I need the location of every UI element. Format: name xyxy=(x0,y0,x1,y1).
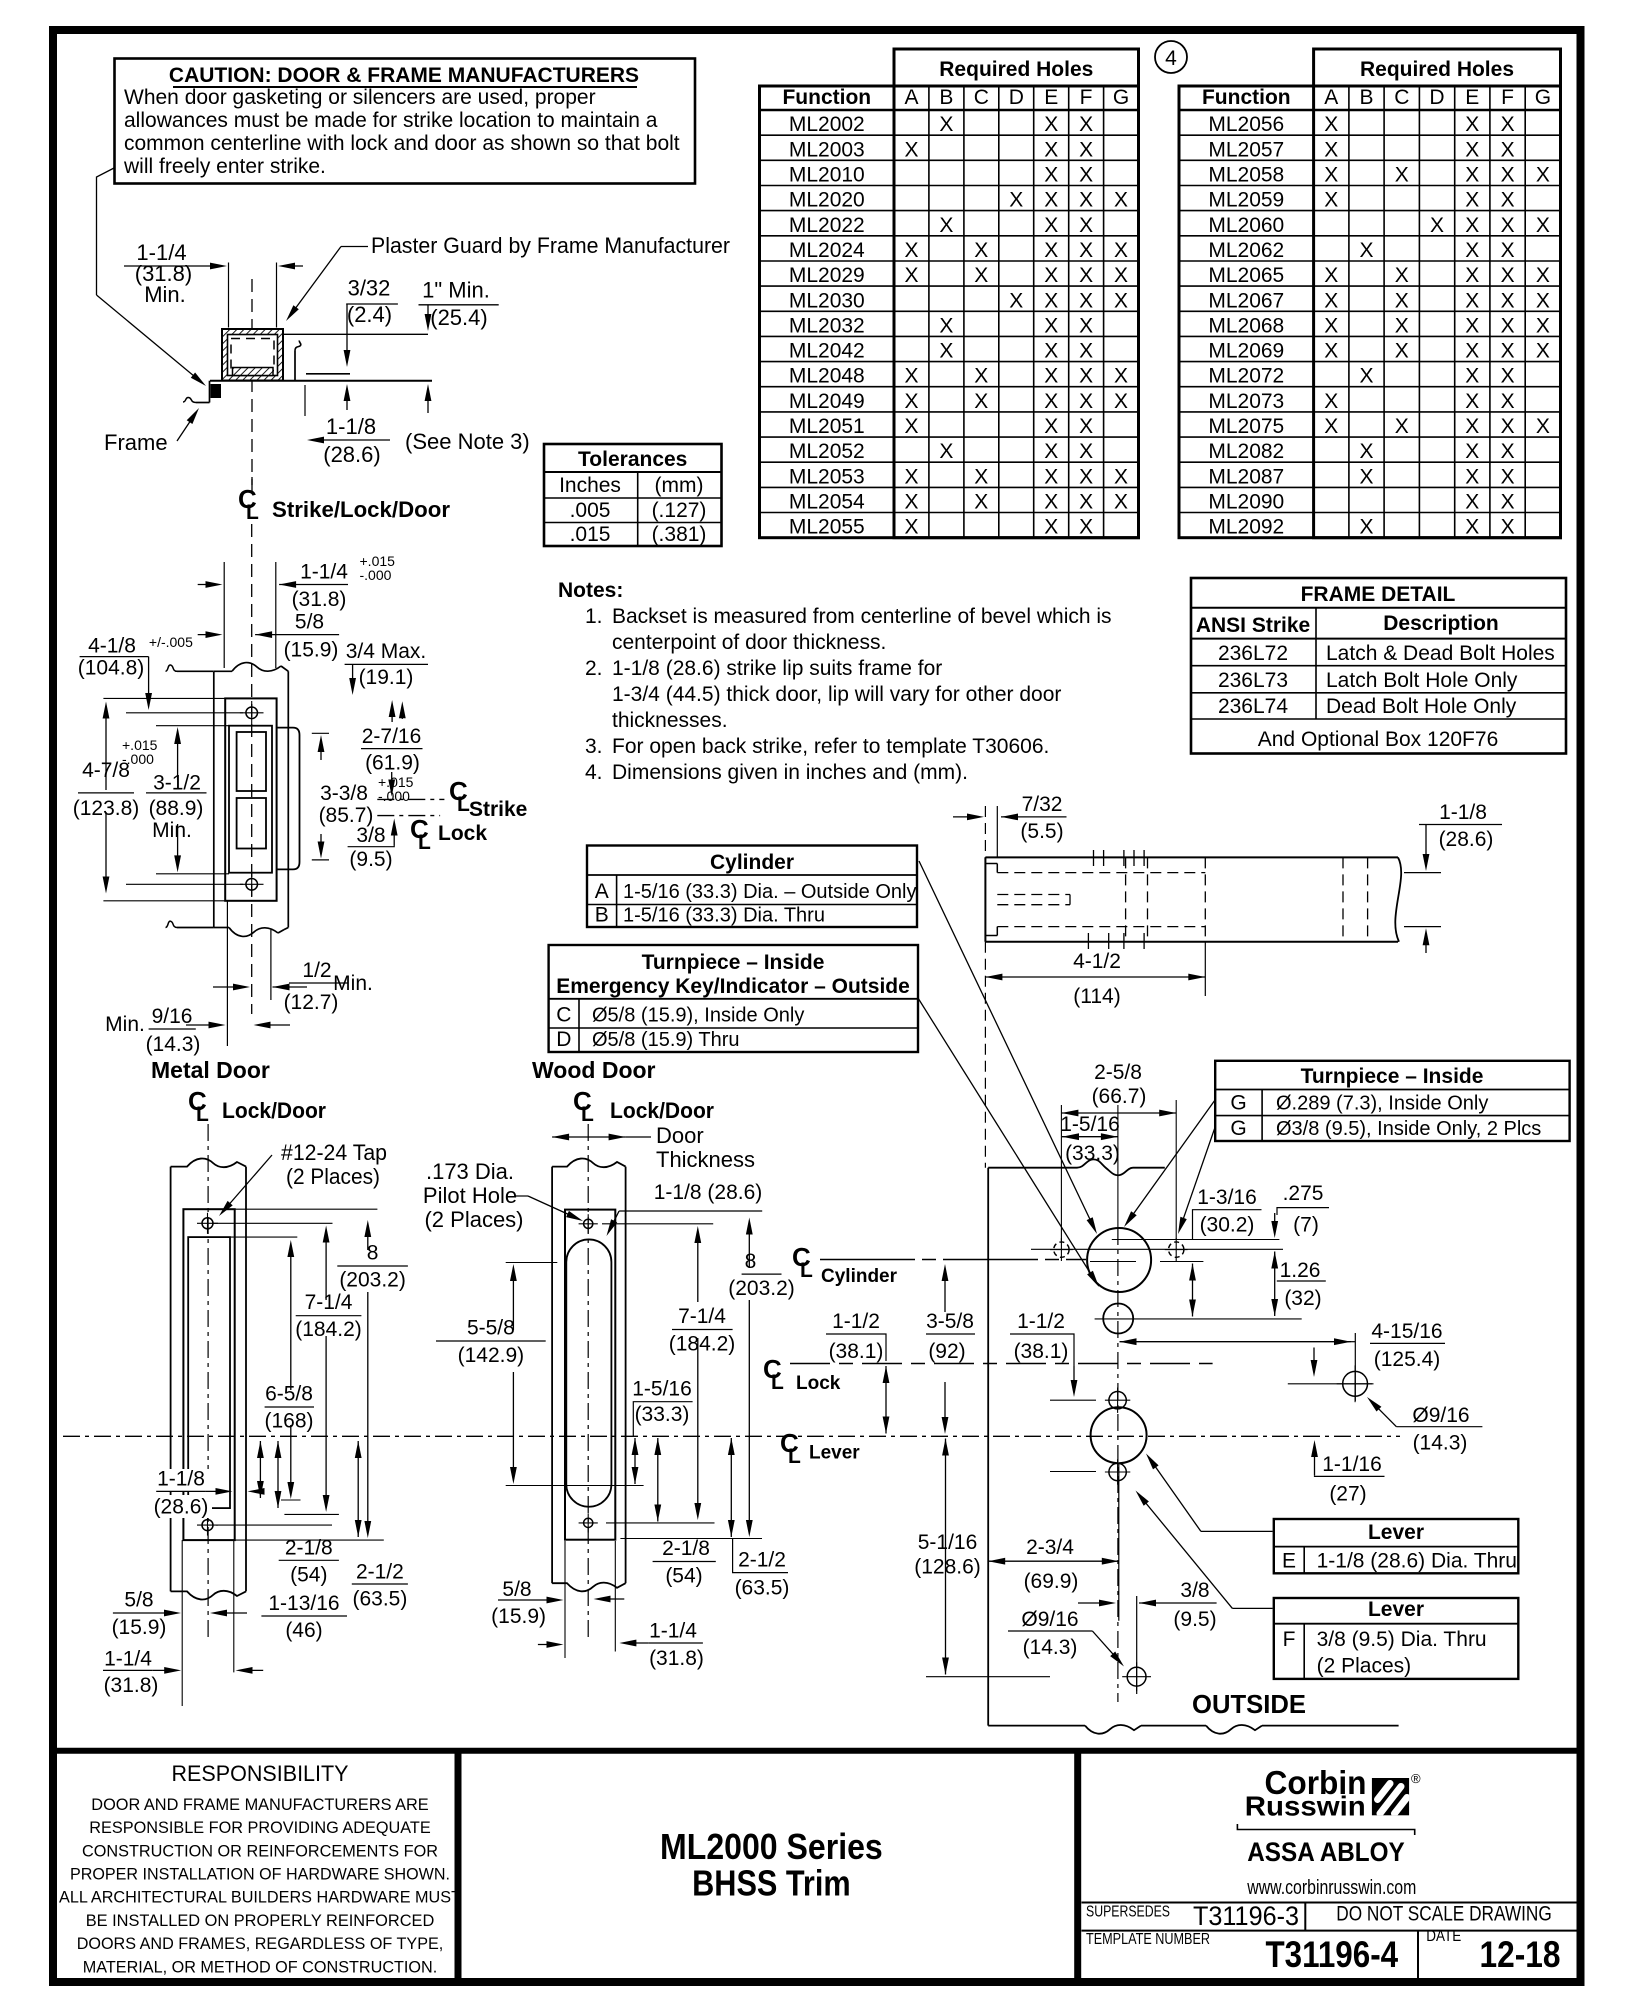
svg-text:X: X xyxy=(1079,264,1093,287)
tolerances table xyxy=(544,444,722,546)
svg-text:ML2075: ML2075 xyxy=(1208,415,1284,438)
svg-text:Backset is measured from cente: Backset is measured from centerline of b… xyxy=(612,605,1112,628)
svg-text:(92): (92) xyxy=(928,1340,965,1363)
svg-text:A: A xyxy=(595,880,609,903)
svg-text:1-5/16 (33.3) Dia. Thru: 1-5/16 (33.3) Dia. Thru xyxy=(623,905,825,927)
svg-text:E: E xyxy=(1044,86,1058,109)
svg-text:X: X xyxy=(1465,113,1479,136)
svg-text:2-7/16: 2-7/16 xyxy=(362,725,422,748)
svg-text:X: X xyxy=(904,491,918,514)
svg-text:.005: .005 xyxy=(570,499,611,522)
svg-text:(2 Places): (2 Places) xyxy=(424,1207,523,1232)
dim 5/8 xyxy=(198,634,217,636)
metal door lower extensions xyxy=(181,1540,183,1706)
svg-text:3.: 3. xyxy=(585,735,603,758)
svg-text:X: X xyxy=(1044,164,1058,187)
dim 7/32 xyxy=(953,816,978,818)
svg-text:FRAME DETAIL: FRAME DETAIL xyxy=(1301,583,1456,606)
strike cutout xyxy=(229,726,272,873)
svg-text:X: X xyxy=(1079,239,1093,262)
global CL lever line xyxy=(63,1435,1400,1437)
svg-text:thicknesses.: thicknesses. xyxy=(612,709,728,732)
svg-text:DO NOT SCALE DRAWING: DO NOT SCALE DRAWING xyxy=(1336,1903,1552,1926)
lever lower extension xyxy=(1118,1464,1120,1621)
right 9/16 hole xyxy=(1288,1383,1372,1385)
svg-text:CONSTRUCTION OR REINFORCEMENTS: CONSTRUCTION OR REINFORCEMENTS FOR xyxy=(82,1841,438,1860)
svg-text:1-1/16: 1-1/16 xyxy=(1322,1453,1382,1476)
svg-text:1-13/16: 1-13/16 xyxy=(268,1592,339,1615)
svg-text:X: X xyxy=(1465,264,1479,287)
dim 6-5/8 metal xyxy=(290,1246,292,1390)
svg-text:X: X xyxy=(1044,314,1058,337)
svg-text:5/8: 5/8 xyxy=(124,1589,153,1612)
svg-text:X: X xyxy=(1501,138,1515,161)
line B centers xyxy=(1031,1248,1283,1250)
svg-text:For open back strike, refer to: For open back strike, refer to template … xyxy=(612,735,1049,758)
svg-text:(2 Places): (2 Places) xyxy=(1317,1654,1412,1677)
CL strike lock door label xyxy=(251,477,253,489)
metal door face plate xyxy=(183,1209,234,1540)
svg-text:(31.8): (31.8) xyxy=(104,1674,159,1697)
svg-text:Lock: Lock xyxy=(438,822,487,845)
svg-text:Strike/Lock/Door: Strike/Lock/Door xyxy=(272,497,450,522)
svg-text:X: X xyxy=(1044,239,1058,262)
svg-text:1" Min.: 1" Min. xyxy=(422,278,490,303)
svg-text:D: D xyxy=(1009,86,1024,109)
svg-text:7-1/4: 7-1/4 xyxy=(305,1291,353,1314)
strike plate outline xyxy=(225,698,276,900)
svg-text:X: X xyxy=(1044,138,1058,161)
svg-text:Metal Door: Metal Door xyxy=(151,1057,270,1083)
svg-text:1-3/16: 1-3/16 xyxy=(1197,1186,1257,1209)
svg-text:Function: Function xyxy=(782,86,871,109)
svg-text:5/8: 5/8 xyxy=(502,1578,531,1601)
svg-text:ML2010: ML2010 xyxy=(789,164,865,187)
svg-text:X: X xyxy=(904,138,918,161)
dim 2-3/4 xyxy=(988,1560,1119,1562)
svg-text:E: E xyxy=(1465,86,1479,109)
wood door face plate xyxy=(565,1210,615,1540)
dim 7-1/4 metal xyxy=(325,1232,327,1301)
strike drawing centerline xyxy=(251,524,253,1014)
svg-text:X: X xyxy=(1501,189,1515,212)
svg-text:When door gasketing or silence: When door gasketing or silencers are use… xyxy=(124,86,596,109)
svg-text:TEMPLATE NUMBER: TEMPLATE NUMBER xyxy=(1086,1931,1210,1948)
small double arrow xyxy=(1192,1264,1194,1317)
svg-text:ML2087: ML2087 xyxy=(1208,465,1284,488)
svg-text:X: X xyxy=(904,365,918,388)
svg-text:(14.3): (14.3) xyxy=(1023,1636,1078,1659)
svg-text:(123.8): (123.8) xyxy=(73,797,140,820)
svg-text:Lever: Lever xyxy=(1368,1521,1424,1544)
svg-text:Cylinder: Cylinder xyxy=(821,1266,898,1287)
svg-text:ML2065: ML2065 xyxy=(1208,264,1284,287)
svg-text:X: X xyxy=(1044,440,1058,463)
svg-text:4-1/2: 4-1/2 xyxy=(1073,950,1121,973)
svg-text:X: X xyxy=(1465,390,1479,413)
svg-text:X: X xyxy=(1359,465,1373,488)
svg-text:Description: Description xyxy=(1383,612,1499,635)
svg-text:(12.7): (12.7) xyxy=(284,991,339,1014)
svg-text:Lock: Lock xyxy=(796,1373,841,1394)
svg-text:Function: Function xyxy=(1202,86,1291,109)
svg-text:(69.9): (69.9) xyxy=(1024,1570,1079,1593)
svg-text:X: X xyxy=(1114,365,1128,388)
svg-text:X: X xyxy=(1079,289,1093,312)
svg-text:ML2003: ML2003 xyxy=(789,138,865,161)
dim 2-1/8 metal xyxy=(277,1441,279,1508)
svg-text:2-5/8: 2-5/8 xyxy=(1094,1061,1142,1084)
dim 1-1/8 bar xyxy=(1404,872,1441,874)
svg-text:F: F xyxy=(1080,86,1093,109)
svg-text:X: X xyxy=(1079,390,1093,413)
svg-text:ML2030: ML2030 xyxy=(789,289,865,312)
svg-text:X: X xyxy=(904,465,918,488)
svg-text:G: G xyxy=(1113,86,1129,109)
svg-text:X: X xyxy=(1501,340,1515,363)
svg-text:X: X xyxy=(1465,314,1479,337)
svg-text:(19.1): (19.1) xyxy=(359,666,414,689)
svg-text:1-1/8 (28.6) Dia. Thru: 1-1/8 (28.6) Dia. Thru xyxy=(1317,1550,1517,1573)
svg-text:X: X xyxy=(1395,314,1409,337)
wood door pilot holes xyxy=(584,1219,593,1228)
svg-text:2-1/2: 2-1/2 xyxy=(738,1549,786,1572)
svg-text:Cylinder: Cylinder xyxy=(710,851,794,874)
bar hidden mortise lines xyxy=(997,872,1205,874)
svg-text:ML2082: ML2082 xyxy=(1208,440,1284,463)
svg-text:1-1/8: 1-1/8 xyxy=(157,1468,205,1491)
svg-text:(28.6): (28.6) xyxy=(154,1495,209,1518)
svg-text:(203.2): (203.2) xyxy=(728,1277,795,1300)
svg-text:X: X xyxy=(939,440,953,463)
deadbolt hole xyxy=(237,798,266,849)
svg-text:Emergency Key/Indicator – Outs: Emergency Key/Indicator – Outside xyxy=(556,975,910,998)
leader from caution box xyxy=(97,168,116,296)
leader G table row1 xyxy=(1128,1100,1216,1222)
svg-text:Door: Door xyxy=(656,1123,704,1148)
svg-text:X: X xyxy=(1114,239,1128,262)
metal door edge strip xyxy=(170,1167,172,1592)
svg-text:(15.9): (15.9) xyxy=(284,639,339,662)
metal door screw holes xyxy=(202,1218,213,1229)
svg-text:(25.4): (25.4) xyxy=(430,305,487,330)
svg-text:L: L xyxy=(581,1103,594,1126)
svg-text:Ø5/8 (15.9) Thru: Ø5/8 (15.9) Thru xyxy=(592,1029,739,1051)
dim 7-1/4 wood xyxy=(697,1232,699,1302)
svg-text:X: X xyxy=(1324,340,1338,363)
dim 2-1/2 wood xyxy=(730,1438,732,1537)
svg-text:X: X xyxy=(904,264,918,287)
svg-text:ALL ARCHITECTURAL BUILDERS HAR: ALL ARCHITECTURAL BUILDERS HARDWARE MUST xyxy=(59,1888,461,1907)
strike box section strip xyxy=(233,368,274,376)
svg-text:236L74: 236L74 xyxy=(1218,695,1288,718)
svg-text:X: X xyxy=(904,516,918,539)
bar alignment dashed line xyxy=(984,806,986,857)
svg-text:4-1/8: 4-1/8 xyxy=(88,634,136,657)
svg-text:236L73: 236L73 xyxy=(1218,669,1288,692)
svg-text:X: X xyxy=(1044,189,1058,212)
svg-text:Min.: Min. xyxy=(144,282,186,307)
dim 1.26 xyxy=(1274,1252,1276,1317)
svg-text:X: X xyxy=(1079,113,1093,136)
dim 2-1/2 metal xyxy=(357,1441,359,1537)
svg-text:allowances must be made for st: allowances must be made for strike locat… xyxy=(124,109,658,132)
svg-text:will freely enter strike.: will freely enter strike. xyxy=(123,155,326,178)
svg-text:X: X xyxy=(1501,516,1515,539)
svg-text:2.: 2. xyxy=(585,657,603,680)
svg-text:X: X xyxy=(1465,239,1479,262)
svg-text:ML2000 Series: ML2000 Series xyxy=(660,1826,883,1867)
svg-text:(28.6): (28.6) xyxy=(1439,828,1494,851)
dim 1-5/16 trim xyxy=(1062,1136,1118,1138)
svg-text:(184.2): (184.2) xyxy=(669,1332,736,1355)
svg-text:236L72: 236L72 xyxy=(1218,642,1288,665)
svg-text:C: C xyxy=(556,1004,571,1027)
svg-text:X: X xyxy=(1465,465,1479,488)
svg-text:(14.3): (14.3) xyxy=(1413,1432,1468,1455)
svg-text:centerpoint of door thickness.: centerpoint of door thickness. xyxy=(612,631,886,654)
svg-text:(38.1): (38.1) xyxy=(1014,1340,1069,1363)
svg-text:X: X xyxy=(1044,390,1058,413)
svg-text:X: X xyxy=(1465,365,1479,388)
metal door centerline xyxy=(207,1124,209,1640)
svg-text:X: X xyxy=(1395,340,1409,363)
svg-text:(15.9): (15.9) xyxy=(491,1605,546,1628)
svg-text:Ø.289 (7.3), Inside Only: Ø.289 (7.3), Inside Only xyxy=(1276,1093,1488,1115)
svg-text:F: F xyxy=(1283,1628,1296,1651)
svg-text:1-1/4: 1-1/4 xyxy=(649,1619,697,1642)
svg-text:6-5/8: 6-5/8 xyxy=(265,1383,313,1406)
svg-text:1-1/4: 1-1/4 xyxy=(300,561,348,584)
lever circle xyxy=(1091,1407,1147,1463)
svg-text:OUTSIDE: OUTSIDE xyxy=(1192,1689,1306,1719)
metal door right extension lines xyxy=(235,1208,378,1210)
svg-text:(54): (54) xyxy=(665,1564,702,1587)
svg-text:(5.5): (5.5) xyxy=(1020,820,1063,843)
trim centerline vertical xyxy=(1117,1105,1119,1228)
svg-text:X: X xyxy=(1114,264,1128,287)
svg-text:4: 4 xyxy=(1165,47,1177,70)
svg-text:ML2056: ML2056 xyxy=(1208,113,1284,136)
svg-text:Ø9/16: Ø9/16 xyxy=(1412,1404,1469,1427)
svg-text:X: X xyxy=(1536,415,1550,438)
svg-text:X: X xyxy=(1114,390,1128,413)
dim 3-3/8 xyxy=(312,732,329,734)
svg-text:Dead Bolt Hole Only: Dead Bolt Hole Only xyxy=(1326,695,1517,718)
svg-text:G: G xyxy=(1230,1092,1246,1115)
svg-text:(168): (168) xyxy=(264,1410,313,1433)
svg-text:X: X xyxy=(904,390,918,413)
svg-text:X: X xyxy=(1044,264,1058,287)
svg-text:X: X xyxy=(1465,491,1479,514)
svg-text:D: D xyxy=(556,1028,571,1051)
required holes table right xyxy=(1314,49,1561,538)
line A tops xyxy=(1112,1239,1280,1241)
trim left edge xyxy=(987,1168,989,1726)
svg-text:(2.4): (2.4) xyxy=(347,302,392,327)
svg-text:X: X xyxy=(974,239,988,262)
svg-text:X: X xyxy=(904,239,918,262)
svg-text:A: A xyxy=(1324,86,1338,109)
svg-text:X: X xyxy=(1079,138,1093,161)
dim 4-15/16 xyxy=(1120,1341,1352,1343)
frame hatched box xyxy=(222,329,283,381)
latch hole xyxy=(237,732,266,791)
svg-text:ANSI Strike: ANSI Strike xyxy=(1196,614,1310,637)
frame stop step xyxy=(211,384,222,398)
svg-text:www.corbinrusswin.com: www.corbinrusswin.com xyxy=(1247,1877,1417,1899)
svg-text:(63.5): (63.5) xyxy=(352,1587,407,1610)
svg-text:X: X xyxy=(1114,465,1128,488)
svg-text:(88.9): (88.9) xyxy=(149,797,204,820)
wood door edge strip xyxy=(551,1167,553,1584)
leader cylinder table to circle xyxy=(919,861,1094,1229)
turnpiece-inside G table xyxy=(1215,1061,1569,1141)
svg-text:L: L xyxy=(800,1259,813,1282)
svg-text:DOORS AND FRAMES, REGARDLESS O: DOORS AND FRAMES, REGARDLESS OF TYPE, xyxy=(77,1934,444,1953)
bar screw ticks xyxy=(1093,850,1095,866)
leader G table row2 xyxy=(1180,1127,1215,1229)
svg-text:G: G xyxy=(1535,86,1551,109)
svg-text:X: X xyxy=(1079,214,1093,237)
svg-text:ML2069: ML2069 xyxy=(1208,340,1284,363)
svg-text:(32): (32) xyxy=(1284,1287,1321,1310)
dim 1-1/16 xyxy=(1314,1446,1316,1475)
dim 5-5/8 xyxy=(512,1270,514,1330)
turnpiece-emergency table xyxy=(549,945,918,1052)
bar outline xyxy=(985,856,1398,858)
svg-text:X: X xyxy=(1501,390,1515,413)
svg-text:(125.4): (125.4) xyxy=(1374,1348,1441,1371)
svg-text:X: X xyxy=(1465,138,1479,161)
strike lower extension lines xyxy=(226,901,228,1046)
svg-text:X: X xyxy=(974,365,988,388)
svg-text:3/8 (9.5) Dia. Thru: 3/8 (9.5) Dia. Thru xyxy=(1317,1628,1487,1651)
svg-text:X: X xyxy=(974,491,988,514)
svg-text:12-18: 12-18 xyxy=(1480,1934,1561,1975)
svg-text:(28.6): (28.6) xyxy=(323,442,380,467)
svg-text:Lever: Lever xyxy=(809,1443,860,1464)
dim 8 wood xyxy=(748,1224,750,1269)
svg-text:Inches: Inches xyxy=(559,474,621,497)
svg-text:ML2067: ML2067 xyxy=(1208,289,1284,312)
svg-text:X: X xyxy=(1079,491,1093,514)
svg-text:2-1/2: 2-1/2 xyxy=(356,1561,404,1584)
bottom band frame xyxy=(53,1748,1581,1754)
dim 1-1/8 metal left xyxy=(153,1469,209,1492)
svg-text:X: X xyxy=(1536,264,1550,287)
svg-text:ML2052: ML2052 xyxy=(789,440,865,463)
svg-text:X: X xyxy=(1465,164,1479,187)
svg-text:5-1/16: 5-1/16 xyxy=(918,1531,978,1554)
wood lower extensions xyxy=(564,1541,566,1658)
svg-text:Strike: Strike xyxy=(469,798,527,821)
svg-text:.015: .015 xyxy=(570,523,611,546)
svg-text:X: X xyxy=(1079,440,1093,463)
svg-text:(114): (114) xyxy=(1073,985,1120,1008)
svg-text:ML2072: ML2072 xyxy=(1208,365,1284,388)
svg-text:X: X xyxy=(974,390,988,413)
svg-text:1-1/8 (28.6): 1-1/8 (28.6) xyxy=(654,1181,763,1204)
frame inner dashed liner xyxy=(231,339,274,371)
strike lip right xyxy=(277,728,300,870)
svg-text:X: X xyxy=(1536,164,1550,187)
svg-text:X: X xyxy=(1359,440,1373,463)
svg-text:F: F xyxy=(1501,86,1514,109)
svg-text:(14.3): (14.3) xyxy=(146,1033,201,1056)
svg-text:ML2062: ML2062 xyxy=(1208,239,1284,262)
svg-text:ML2060: ML2060 xyxy=(1208,214,1284,237)
svg-text:X: X xyxy=(1324,138,1338,161)
cylinder circle xyxy=(1087,1228,1151,1292)
svg-text:5/8: 5/8 xyxy=(295,611,324,634)
svg-text:G: G xyxy=(1230,1117,1246,1140)
svg-text:Tolerances: Tolerances xyxy=(578,448,687,471)
svg-text:(mm): (mm) xyxy=(655,474,704,497)
strike screw hole top xyxy=(246,707,258,719)
lever E table xyxy=(1274,1519,1519,1573)
svg-text:®: ® xyxy=(1411,1771,1421,1786)
svg-text:X: X xyxy=(1395,164,1409,187)
svg-text:X: X xyxy=(1044,289,1058,312)
svg-text:X: X xyxy=(1079,340,1093,363)
svg-text:Frame: Frame xyxy=(104,430,168,455)
dim 8 metal xyxy=(367,1226,369,1250)
dim 3/8 trim xyxy=(1078,1602,1110,1604)
trim bottom edge with breaks xyxy=(988,1725,1085,1727)
leader lever E table xyxy=(1201,1530,1273,1532)
note 4 circle xyxy=(1155,41,1187,73)
frame section centerline xyxy=(251,279,253,493)
svg-text:ML2053: ML2053 xyxy=(789,465,865,488)
svg-text:T31196-3: T31196-3 xyxy=(1193,1901,1299,1931)
strike lip profile xyxy=(294,351,296,380)
svg-text:X: X xyxy=(939,340,953,363)
assa abloy lockup xyxy=(1237,1824,1414,1835)
svg-text:Thickness: Thickness xyxy=(656,1147,755,1172)
svg-text:X: X xyxy=(1536,314,1550,337)
bar left notches xyxy=(985,863,997,865)
svg-text:X: X xyxy=(939,113,953,136)
svg-text:X: X xyxy=(1501,465,1515,488)
svg-text:L: L xyxy=(788,1445,801,1468)
svg-text:X: X xyxy=(1079,365,1093,388)
leader turnpiece table to circle xyxy=(918,998,1096,1282)
svg-text:Notes:: Notes: xyxy=(558,579,623,602)
svg-text:X: X xyxy=(1501,164,1515,187)
svg-text:ML2002: ML2002 xyxy=(789,113,865,136)
svg-text:(46): (46) xyxy=(285,1619,322,1642)
svg-text:Turnpiece – Inside: Turnpiece – Inside xyxy=(642,951,825,974)
svg-text:X: X xyxy=(1465,289,1479,312)
svg-text:RESPONSIBLE FOR PROVIDING ADEQ: RESPONSIBLE FOR PROVIDING ADEQUATE xyxy=(89,1818,430,1837)
svg-text:1-5/16: 1-5/16 xyxy=(632,1377,692,1400)
svg-text:X: X xyxy=(1536,289,1550,312)
dim 2-7/16 xyxy=(391,706,393,722)
svg-text:common centerline with lock an: common centerline with lock and door as … xyxy=(124,132,680,155)
CL strike label xyxy=(377,798,444,800)
svg-text:Min.: Min. xyxy=(152,819,192,842)
svg-text:X: X xyxy=(974,465,988,488)
svg-text:3/8: 3/8 xyxy=(1180,1579,1209,1602)
turnpiece line xyxy=(1095,1318,1302,1320)
svg-text:3/32: 3/32 xyxy=(348,276,391,301)
svg-text:(104.8): (104.8) xyxy=(78,656,145,679)
svg-text:1-1/4: 1-1/4 xyxy=(104,1647,152,1670)
svg-text:X: X xyxy=(1009,289,1023,312)
svg-text:X: X xyxy=(1501,264,1515,287)
title block grid xyxy=(1082,1902,1578,1904)
